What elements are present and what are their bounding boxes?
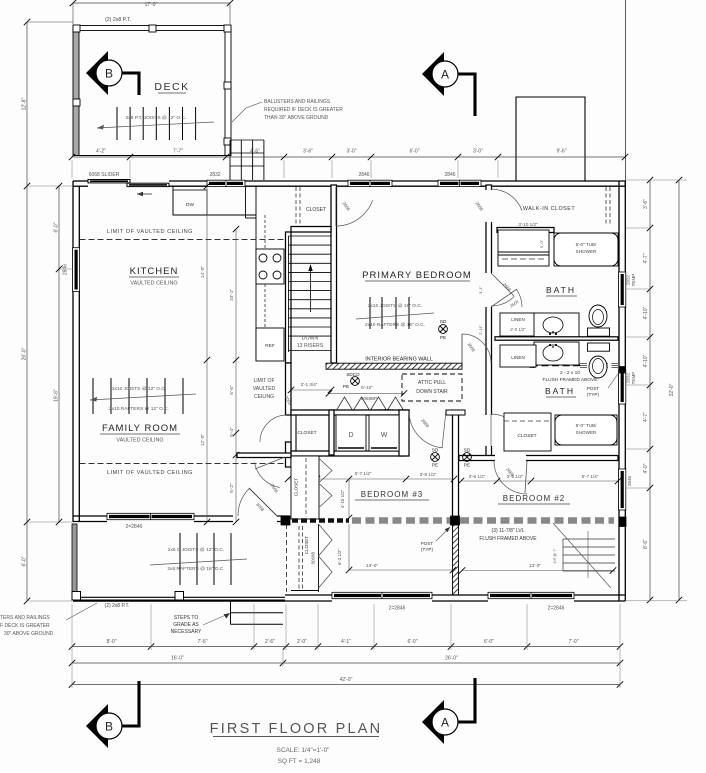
- svg-text:KITCHEN: KITCHEN: [130, 266, 179, 277]
- stairs treads: [289, 235, 332, 237]
- deck rail posts: [73, 25, 80, 32]
- svg-text:VAULTED CEILING: VAULTED CEILING: [130, 281, 177, 287]
- bedroom2/3 divider wall upper: [453, 411, 459, 517]
- svg-text:3'-0": 3'-0": [347, 149, 357, 155]
- svg-text:7'-7": 7'-7": [173, 149, 183, 155]
- window 2=2846 family bottom: [107, 513, 194, 519]
- deck bottom edge: [73, 155, 231, 157]
- svg-text:6'-3 1/2": 6'-3 1/2": [337, 549, 342, 566]
- svg-text:6'-0": 6'-0": [22, 556, 28, 566]
- porch joists: [179, 533, 181, 585]
- svg-text:W: W: [381, 432, 388, 439]
- svg-text:SCALE: 1/4"=1'-0": SCALE: 1/4"=1'-0": [276, 747, 330, 754]
- svg-text:CLOSET: CLOSET: [306, 207, 326, 213]
- family room bottom wall: [73, 515, 107, 517]
- bedroom3 dim 13'-0": [349, 569, 453, 571]
- svg-text:LIMIT OF VAULTED CEILING: LIMIT OF VAULTED CEILING: [107, 470, 193, 476]
- svg-text:PE: PE: [440, 335, 446, 340]
- svg-text:13'-0": 13'-0": [366, 563, 379, 569]
- svg-text:4'-10": 4'-10": [643, 306, 649, 319]
- svg-text:7'-0": 7'-0": [569, 639, 579, 645]
- primary closet door arc: [336, 200, 373, 226]
- svg-text:3'-1": 3'-1": [478, 285, 483, 294]
- svg-text:9'-6": 9'-6": [557, 149, 567, 155]
- primary east wall: [486, 185, 492, 460]
- bath1 double doors 2668: [491, 273, 514, 296]
- svg-text:5'-0" TUB/: 5'-0" TUB/: [576, 242, 598, 247]
- svg-text:4'-1": 4'-1": [341, 639, 351, 645]
- svg-text:FAMILY ROOM: FAMILY ROOM: [102, 423, 178, 434]
- LVL flush beam grey: [352, 517, 614, 524]
- svg-text:3'-8 1/2": 3'-8 1/2": [420, 472, 437, 477]
- svg-text:CLOSET: CLOSET: [517, 433, 536, 439]
- svg-text:3'-6": 3'-6": [303, 149, 313, 155]
- svg-text:2'-0 1/2": 2'-0 1/2": [510, 327, 526, 332]
- svg-text:5'-10": 5'-10": [361, 385, 373, 390]
- right inner dimension line: [649, 180, 651, 600]
- svg-text:SD: SD: [432, 448, 439, 453]
- tub shower bath2: [555, 415, 617, 445]
- svg-text:8'-6": 8'-6": [643, 539, 649, 549]
- toilet 2: [588, 343, 610, 351]
- svg-text:5'-2": 5'-2": [229, 483, 235, 493]
- svg-text:NECESSARY: NECESSARY: [171, 629, 202, 635]
- svg-text:6'-0": 6'-0": [408, 639, 418, 645]
- svg-text:13 RISERS: 13 RISERS: [297, 343, 324, 349]
- house bottom wall right part: [285, 594, 332, 596]
- svg-text:5'-4": 5'-4": [229, 427, 235, 437]
- svg-text:3'-1 3/4": 3'-1 3/4": [301, 382, 318, 387]
- svg-text:2x10 RAFTERS @ 12" O.C.: 2x10 RAFTERS @ 12" O.C.: [109, 406, 169, 412]
- vestibule south wall: [237, 453, 291, 458]
- svg-text:32'-0": 32'-0": [669, 383, 675, 396]
- svg-text:BEDROOM #2: BEDROOM #2: [503, 494, 565, 503]
- svg-text:(TYP): (TYP): [421, 547, 433, 552]
- svg-text:5068B: 5068B: [311, 552, 316, 565]
- chimney: [516, 97, 585, 181]
- svg-text:INTERIOR BEARING WALL: INTERIOR BEARING WALL: [365, 357, 433, 363]
- svg-text:30" ABOVE GROUND: 30" ABOVE GROUND: [4, 631, 54, 637]
- bath2 closet: [504, 413, 551, 451]
- stair block west wall: [286, 232, 292, 363]
- svg-text:6'-0": 6'-0": [410, 149, 420, 155]
- svg-text:17'-0": 17'-0": [145, 2, 158, 8]
- svg-text:6'-0": 6'-0": [54, 222, 60, 232]
- svg-text:SDCO: SDCO: [346, 372, 360, 377]
- bath division wall: [495, 337, 618, 340]
- svg-text:2832: 2832: [626, 274, 631, 285]
- svg-text:19'-6": 19'-6": [54, 389, 60, 402]
- section marker B top: [86, 51, 108, 95]
- LVL flush beam black left: [283, 518, 349, 523]
- window 2832 right (bath2): [619, 370, 626, 404]
- svg-text:3'-8 1/2": 3'-8 1/2": [469, 474, 486, 479]
- bedroom2 dim 13'-0": [462, 570, 613, 572]
- svg-text:8'-0": 8'-0": [107, 639, 117, 645]
- svg-text:12'-0": 12'-0": [200, 434, 206, 447]
- stairs center line with arrow: [310, 269, 312, 312]
- deck joist span arrow: [97, 122, 214, 128]
- kitchen entry nook: [245, 186, 247, 218]
- svg-text:2'-11": 2'-11": [478, 324, 483, 334]
- svg-text:DOWN STAIR: DOWN STAIR: [416, 389, 448, 395]
- svg-text:13'-0": 13'-0": [529, 563, 542, 569]
- svg-text:SHOWER: SHOWER: [576, 249, 597, 254]
- right outer dimension line: [678, 180, 680, 600]
- svg-text:GRADE AS: GRADE AS: [173, 622, 199, 628]
- svg-text:5'-7 1/4": 5'-7 1/4": [582, 474, 599, 479]
- svg-text:BATH: BATH: [546, 285, 576, 295]
- svg-text:DW: DW: [186, 202, 194, 208]
- svg-text:6'-0": 6'-0": [484, 639, 494, 645]
- family porch door 3068 leaf: [249, 488, 277, 516]
- left outer dimension line: [26, 22, 28, 601]
- svg-text:PE: PE: [343, 384, 349, 389]
- svg-text:4'-7": 4'-7": [643, 412, 649, 422]
- svg-text:12'-8": 12'-8": [22, 97, 28, 110]
- svg-text:3'-5 1/2": 3'-5 1/2": [507, 474, 524, 479]
- svg-text:B: B: [105, 67, 113, 81]
- bedroom3 entry door: [409, 411, 443, 448]
- svg-text:2832: 2832: [209, 172, 220, 178]
- svg-text:LIMIT OF VAULTED CEILING: LIMIT OF VAULTED CEILING: [107, 229, 193, 235]
- svg-text:6'-7 1/2": 6'-7 1/2": [355, 471, 372, 476]
- house left wall: [72, 186, 74, 522]
- porch posts: [72, 592, 81, 601]
- bedroom2 corner stair detail: [563, 538, 615, 540]
- dryer: [336, 415, 366, 451]
- bedroom3 closet dim 6'-3 1/2": [348, 524, 350, 570]
- primary entry door arc: [462, 334, 491, 363]
- family room joists: [92, 378, 94, 414]
- svg-text:VAULTED: VAULTED: [253, 386, 276, 392]
- window 2846 left wall (family): [73, 248, 80, 292]
- svg-text:CLOSET: CLOSET: [297, 430, 316, 436]
- walk-in vanity built-in: [498, 230, 549, 266]
- section marker B bottom: [86, 704, 108, 748]
- kitchen counter with DW: [172, 186, 174, 215]
- svg-text:POST: POST: [587, 386, 600, 391]
- attic pull down stair: [402, 374, 462, 401]
- bedroom3 closet upper: [291, 456, 319, 519]
- walk-in closet door arc: [491, 189, 522, 211]
- beam post at right wall: [619, 517, 626, 527]
- bottom extension lines: [150, 604, 152, 650]
- svg-text:REF: REF: [265, 343, 275, 349]
- svg-text:A: A: [441, 716, 449, 730]
- limit of vaulted ceiling (family): [80, 463, 286, 465]
- svg-text:WALK-IN CLOSET: WALK-IN CLOSET: [523, 206, 576, 212]
- range / stove: [256, 249, 284, 284]
- svg-text:2=2846: 2=2846: [389, 606, 406, 612]
- svg-text:2846: 2846: [358, 172, 369, 178]
- top dimension row: [72, 156, 625, 158]
- svg-text:(TYP): (TYP): [587, 392, 599, 397]
- laundry block walls: [291, 410, 409, 415]
- deck stairs to grade: [229, 140, 231, 180]
- svg-text:TERS AND RAILINGS: TERS AND RAILINGS: [0, 615, 50, 621]
- bath2 south wall: [459, 456, 618, 461]
- window 2846 top left (primary): [348, 180, 392, 186]
- svg-text:THAN 30" ABOVE GROUND: THAN 30" ABOVE GROUND: [264, 115, 329, 121]
- svg-text:PE: PE: [432, 463, 438, 468]
- svg-text:(2) 2x8 P.T.: (2) 2x8 P.T.: [105, 603, 130, 609]
- porch left edge: [72, 524, 77, 595]
- bedroom3 vertical dim 4'-10 1/2": [348, 479, 350, 518]
- svg-text:TEMP: TEMP: [631, 372, 636, 385]
- section marker A bottom: [422, 700, 444, 744]
- window 2=2846 bottom (bedroom2): [488, 592, 574, 598]
- walk-in closet mirror dashed: [605, 187, 607, 226]
- flush beam 2-2x10: [531, 364, 580, 367]
- svg-text:2846: 2846: [444, 172, 455, 178]
- stair block east wall / primary west wall: [331, 185, 337, 363]
- kitchen counter column: [255, 186, 257, 361]
- svg-text:3 R @ 7": 3 R @ 7": [553, 548, 557, 564]
- svg-text:2=2846: 2=2846: [126, 524, 143, 530]
- svg-text:LINEN: LINEN: [511, 317, 525, 322]
- refrigerator: [256, 328, 284, 361]
- svg-text:BEDROOM #3: BEDROOM #3: [361, 490, 423, 499]
- svg-text:2x10 JOISTS @ 16" O.C.: 2x10 JOISTS @ 16" O.C.: [368, 303, 422, 309]
- svg-text:SD: SD: [464, 448, 471, 453]
- beam post at bath2 right wall: [619, 367, 625, 374]
- svg-text:SHOWER: SHOWER: [576, 430, 597, 435]
- linen closet 2: [500, 345, 536, 367]
- svg-text:3'-10 1/2": 3'-10 1/2": [518, 222, 538, 227]
- svg-text:2 - 2 x 10: 2 - 2 x 10: [560, 370, 580, 376]
- window 2832 top (kitchen): [207, 180, 245, 186]
- svg-text:3'-0": 3'-0": [473, 149, 483, 155]
- bottom dimension row 1: [72, 646, 620, 648]
- svg-text:2832: 2832: [626, 372, 631, 383]
- svg-text:CLOSET: CLOSET: [294, 478, 299, 497]
- svg-text:7'-6": 7'-6": [198, 639, 208, 645]
- svg-text:4'-7": 4'-7": [643, 253, 649, 263]
- toilet 1: [588, 328, 610, 336]
- svg-text:2x6 C JOISTS @ 12" O.C.: 2x6 C JOISTS @ 12" O.C.: [168, 547, 224, 553]
- walk-in closet south wall: [497, 228, 554, 233]
- svg-text:2x10 RAFTERS @ 16" O.C.: 2x10 RAFTERS @ 16" O.C.: [365, 322, 425, 328]
- bedroom3 closet lower: [286, 524, 288, 592]
- svg-text:ATTIC PULL: ATTIC PULL: [418, 380, 446, 386]
- kitchen closet bottom wall: [291, 227, 331, 233]
- svg-text:A: A: [441, 68, 449, 82]
- svg-text:4'-0": 4'-0": [643, 463, 649, 473]
- svg-text:16'-0": 16'-0": [171, 656, 184, 662]
- svg-text:TEMP: TEMP: [631, 274, 636, 287]
- svg-text:FIRST FLOOR PLAN: FIRST FLOOR PLAN: [210, 721, 383, 737]
- house top wall: [73, 180, 88, 182]
- svg-text:(2) 2x8 P.T.: (2) 2x8 P.T.: [105, 17, 131, 23]
- svg-text:(3) 11-7/8" LVL: (3) 11-7/8" LVL: [492, 528, 525, 534]
- porch steps: [230, 601, 232, 625]
- svg-text:STEPS TO: STEPS TO: [174, 615, 199, 621]
- deck joists: [116, 107, 118, 140]
- linen closet 1: [500, 313, 536, 336]
- svg-text:VAULTED CEILING: VAULTED CEILING: [116, 438, 163, 444]
- svg-text:CEILING: CEILING: [254, 394, 274, 400]
- svg-text:FLUSH FRAMED ABOVE: FLUSH FRAMED ABOVE: [543, 377, 598, 383]
- bedroom3 closet upper chevron doors: [319, 458, 333, 508]
- vanity sink 1: [534, 313, 579, 337]
- laundry bifold doors: [336, 397, 370, 411]
- beam end post left: [530, 363, 535, 368]
- svg-text:POST: POST: [421, 541, 434, 546]
- svg-text:BATH: BATH: [545, 386, 575, 396]
- bottom dimension row 2: [72, 662, 620, 664]
- svg-text:5'-0" TUB/: 5'-0" TUB/: [576, 423, 598, 428]
- window 2832 right (bath1): [619, 272, 626, 307]
- svg-text:PE: PE: [464, 463, 470, 468]
- svg-text:LINEN: LINEN: [511, 355, 525, 360]
- svg-text:42'-0": 42'-0": [340, 677, 353, 683]
- porch front beam (2) 2x8 P.T.: [73, 596, 285, 598]
- bath2 door arc: [491, 414, 521, 435]
- interior bearing wall: [326, 363, 462, 369]
- window 2846 top right (primary): [438, 180, 481, 186]
- svg-text:BALUSTERS AND RAILINGS: BALUSTERS AND RAILINGS: [264, 99, 331, 105]
- hall west wall segments: [286, 363, 292, 415]
- entry arrow: [137, 193, 152, 195]
- svg-text:2x8 P.T. JOISTS @ 12" O.C.: 2x8 P.T. JOISTS @ 12" O.C.: [126, 115, 187, 121]
- beam posts: [281, 516, 290, 525]
- svg-text:2'-0": 2'-0": [297, 639, 307, 645]
- window 2846 right (bedroom2): [619, 469, 626, 510]
- svg-text:2x10 JOISTS @ 12" O.C.: 2x10 JOISTS @ 12" O.C.: [112, 386, 166, 392]
- svg-text:DOWN: DOWN: [302, 336, 319, 342]
- deck right rail wall: [225, 26, 231, 156]
- svg-text:2846: 2846: [627, 475, 632, 486]
- svg-text:4'-2": 4'-2": [96, 149, 106, 155]
- kitchen interior dim 14'-0" / 12'-0": [206, 186, 208, 522]
- svg-text:4'-10": 4'-10": [643, 354, 649, 367]
- primary joists: [369, 297, 371, 329]
- svg-text:FLUSH FRAMED ABOVE: FLUSH FRAMED ABOVE: [479, 536, 537, 542]
- kitchen interior dim 10'-1" column: [235, 229, 237, 522]
- svg-text:2x8 RAFTERS @ 16" O.C.: 2x8 RAFTERS @ 16" O.C.: [167, 566, 224, 572]
- svg-text:LIMIT OF: LIMIT OF: [253, 378, 274, 384]
- vanity sink 2: [534, 342, 579, 365]
- svg-text:5'-0": 5'-0": [539, 239, 544, 248]
- deck left rail wall: [73, 26, 79, 156]
- svg-text:2'-6": 2'-6": [265, 639, 275, 645]
- bedroom2 door arc: [494, 461, 527, 494]
- bedroom3 interior dims: [288, 478, 454, 480]
- vestibule door 2668: [255, 462, 280, 487]
- svg-text:10'-1": 10'-1": [229, 289, 235, 302]
- svg-text:B: B: [105, 720, 113, 734]
- svg-text:SQ FT = 1,248: SQ FT = 1,248: [278, 758, 321, 765]
- svg-text:SD: SD: [440, 319, 447, 324]
- svg-text:DECK: DECK: [154, 81, 189, 93]
- washer: [369, 415, 399, 451]
- tub shower bath1: [554, 233, 618, 266]
- hall door 2068: [260, 415, 286, 442]
- slider door 6068 top wall: [88, 180, 130, 183]
- house right wall: [618, 181, 620, 601]
- svg-text:4'-10 1/2": 4'-10 1/2": [340, 489, 345, 508]
- bedroom3 closet lower chevron doors: [319, 524, 333, 588]
- svg-text:6068 SLIDER: 6068 SLIDER: [89, 172, 120, 178]
- svg-text:2846: 2846: [63, 264, 69, 275]
- svg-text:3'-6": 3'-6": [643, 199, 649, 209]
- svg-text:26'-0": 26'-0": [445, 656, 458, 662]
- svg-text:2=2846: 2=2846: [548, 606, 565, 612]
- svg-text:14'-0": 14'-0": [200, 266, 206, 279]
- svg-text:REQUIRED IF DECK IS GREATER: REQUIRED IF DECK IS GREATER: [264, 107, 343, 113]
- svg-text:5'-6": 5'-6": [229, 385, 235, 395]
- bottom dimension row 3: [72, 684, 620, 686]
- deck top rail: [73, 26, 231, 31]
- svg-text:26'-0": 26'-0": [22, 347, 28, 360]
- deck top dimension 17'-0": [73, 2, 230, 4]
- svg-text:CLOSET: CLOSET: [304, 536, 309, 555]
- section marker A top: [422, 52, 444, 96]
- bedroom2/3 divider wall hatched lower: [453, 525, 459, 595]
- svg-text:D: D: [348, 432, 353, 439]
- svg-text:PRIMARY BEDROOM: PRIMARY BEDROOM: [362, 270, 472, 281]
- window 2=2846 bottom (bedroom3): [332, 592, 432, 598]
- dimension extension line right of chimney: [625, 0, 627, 181]
- left inner dimension line: [58, 186, 60, 522]
- svg-text:F DECK IS GREATER: F DECK IS GREATER: [0, 623, 50, 629]
- svg-text:4'-6": 4'-6": [250, 149, 260, 155]
